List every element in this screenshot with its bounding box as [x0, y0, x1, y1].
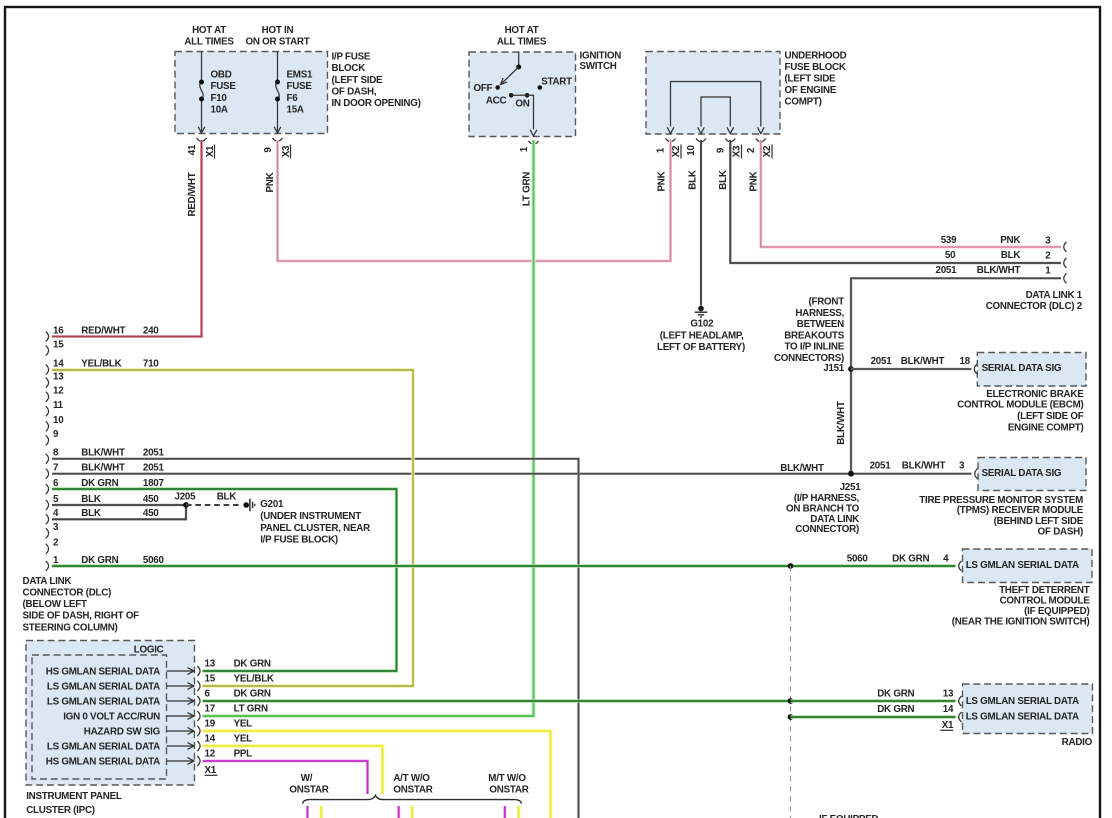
- label BLK (vertical, pin 9): [718, 170, 729, 190]
- wire PPL (IPC pin 12): [203, 761, 368, 794]
- svg-text:M/T W/O: M/T W/O: [488, 773, 526, 784]
- dashed harness line: [790, 566, 792, 818]
- svg-text:IGNITION: IGNITION: [580, 51, 622, 62]
- svg-text:9: 9: [715, 147, 726, 153]
- svg-text:15A: 15A: [287, 104, 304, 115]
- wire BLK (dashed, J205 to G201): [186, 504, 242, 506]
- svg-text:OFF: OFF: [473, 83, 492, 94]
- connector cup underhood x=730.3: [725, 139, 735, 142]
- connector radio pin 13: [959, 696, 962, 706]
- wire DK GRN (IPC pin 6 to junction): [203, 699, 791, 702]
- pin 10 label: [686, 145, 697, 156]
- junction at separator (5060): [788, 563, 794, 569]
- svg-text:(UNDER INSTRUMENT: (UNDER INSTRUMENT: [260, 511, 361, 522]
- svg-text:ON: ON: [515, 99, 529, 110]
- svg-text:BLK/WHT: BLK/WHT: [836, 401, 847, 445]
- svg-text:J205: J205: [175, 491, 197, 502]
- svg-text:10: 10: [53, 415, 64, 426]
- label ON: [515, 99, 529, 110]
- wire DK GRN 5060 (DLC pin 1 to theft deterrent): [52, 564, 956, 567]
- svg-text:X1: X1: [205, 765, 217, 776]
- junction LS GMLAN (radio 14): [788, 714, 794, 720]
- label RED/WHT 240 (pin 16): [81, 325, 159, 336]
- label BLK/WHT 2051 (pin 8): [81, 448, 164, 459]
- svg-text:HOT AT: HOT AT: [505, 25, 539, 36]
- svg-text:ONSTAR: ONSTAR: [489, 784, 528, 795]
- svg-text:6: 6: [205, 689, 211, 700]
- svg-text:RADIO: RADIO: [1062, 737, 1093, 748]
- svg-text:IGN 0 VOLT ACC/RUN: IGN 0 VOLT ACC/RUN: [63, 712, 160, 723]
- label W/ ONSTAR: [289, 773, 328, 796]
- label LOGIC: [134, 644, 164, 655]
- label PNK (vertical, fuse F6): [265, 172, 276, 192]
- ignition switch contacts and wiper: [495, 52, 542, 136]
- connector cup fuse F6 output: [273, 138, 283, 141]
- svg-text:41: 41: [187, 144, 198, 155]
- svg-text:HOT AT: HOT AT: [192, 25, 226, 36]
- label 5060 DK GRN 4: [847, 553, 949, 564]
- svg-text:IF EQUIPPED: IF EQUIPPED: [819, 814, 878, 818]
- svg-text:(BELOW LEFT: (BELOW LEFT: [23, 599, 87, 610]
- svg-text:INSTRUMENT PANEL: INSTRUMENT PANEL: [26, 791, 122, 802]
- svg-text:9: 9: [263, 147, 274, 153]
- svg-text:1: 1: [53, 555, 59, 566]
- brace (ONSTAR variants): [303, 795, 522, 803]
- wire PPL stub (A/T W/O ONSTAR): [397, 806, 400, 818]
- junction J205: [183, 502, 189, 508]
- svg-text:G201: G201: [260, 499, 284, 510]
- svg-text:J251: J251: [840, 482, 862, 493]
- wire BLK/WHT 2051 (DLC pin 8): [52, 459, 579, 818]
- label G102 location: [657, 318, 745, 353]
- svg-text:START: START: [541, 77, 572, 88]
- svg-text:BLK/WHT: BLK/WHT: [81, 448, 125, 459]
- svg-text:TO I/P INLINE: TO I/P INLINE: [784, 342, 844, 353]
- svg-text:LS GMLAN SERIAL DATA: LS GMLAN SERIAL DATA: [966, 696, 1079, 707]
- svg-text:2051: 2051: [143, 463, 165, 474]
- IPC pin 15 (LS GMLAN SERIAL DATA): [47, 674, 274, 693]
- svg-text:PNK: PNK: [657, 171, 668, 191]
- label YEL/BLK 710 (pin 14): [81, 359, 159, 370]
- fuse F10 (OBD, 10A): [198, 52, 205, 134]
- junction LS GMLAN (radio 13): [788, 698, 794, 704]
- svg-text:PANEL CLUSTER, NEAR: PANEL CLUSTER, NEAR: [260, 523, 370, 534]
- svg-text:710: 710: [143, 359, 159, 370]
- svg-text:19: 19: [205, 719, 216, 730]
- svg-text:DK GRN: DK GRN: [892, 553, 929, 564]
- label HOT AT ALL TIMES (ignition): [497, 25, 547, 48]
- label I/P FUSE BLOCK location: [332, 52, 421, 110]
- wire BLK 450 (DLC pin 5 to J205): [52, 504, 186, 506]
- connector EBCM pin 18: [974, 364, 977, 374]
- label SERIAL DATA SIG (EBCM): [982, 363, 1062, 374]
- connector cup ignition output: [529, 141, 539, 144]
- wire YEL stub (A/T W/O ONSTAR): [410, 806, 414, 818]
- label HOT AT ALL TIMES (left): [184, 25, 234, 48]
- junction J151: [848, 366, 854, 372]
- svg-text:LEFT OF BATTERY): LEFT OF BATTERY): [657, 342, 745, 353]
- svg-text:BLK/WHT: BLK/WHT: [780, 463, 824, 474]
- label G201 location: [260, 499, 370, 545]
- svg-text:LT GRN: LT GRN: [522, 172, 533, 206]
- svg-text:(NEAR THE IGNITION SWITCH): (NEAR THE IGNITION SWITCH): [952, 616, 1090, 627]
- svg-text:ON OR START: ON OR START: [245, 37, 309, 48]
- terminal X1 label (IPC): [205, 765, 218, 776]
- svg-text:J151: J151: [823, 363, 845, 374]
- I/P fuse block box: [175, 52, 328, 134]
- svg-text:COMPT): COMPT): [785, 96, 822, 107]
- svg-text:1: 1: [1045, 265, 1051, 276]
- svg-text:14: 14: [943, 704, 954, 715]
- svg-text:3: 3: [959, 461, 965, 472]
- svg-text:CONNECTOR (DLC): CONNECTOR (DLC): [23, 588, 112, 599]
- svg-text:X2: X2: [671, 145, 682, 157]
- wire LT GRN (ignition to IPC pin 17): [203, 140, 534, 716]
- connector DLC2 pin 1: [1064, 273, 1067, 283]
- svg-text:(LEFT SIDE: (LEFT SIDE: [332, 75, 384, 86]
- connector DLC2 pin 3: [1064, 242, 1067, 252]
- svg-text:BLK: BLK: [81, 508, 101, 519]
- svg-text:BLK: BLK: [688, 170, 699, 190]
- svg-text:6: 6: [53, 478, 59, 489]
- wire BLK/WHT 2051 (DLC2 pin 1 / J151 branch): [851, 278, 1061, 473]
- label LS GMLAN SERIAL DATA (radio 13): [966, 696, 1079, 707]
- svg-text:(I/P HARNESS,: (I/P HARNESS,: [794, 493, 860, 504]
- terminal X2 label (pin 2): [762, 145, 773, 159]
- svg-text:LOGIC: LOGIC: [134, 644, 164, 655]
- svg-text:5060: 5060: [143, 555, 165, 566]
- svg-text:HS GMLAN SERIAL DATA: HS GMLAN SERIAL DATA: [46, 667, 160, 678]
- pin 9 label (underhood): [715, 147, 726, 153]
- label (FRONT HARNESS...) J151: [774, 297, 845, 375]
- svg-text:BLK/WHT: BLK/WHT: [902, 461, 946, 472]
- svg-text:DATA LINK: DATA LINK: [23, 576, 72, 587]
- label DK GRN 5060 (pin 1): [81, 555, 164, 566]
- svg-text:BETWEEN: BETWEEN: [797, 319, 844, 330]
- svg-text:HAZARD SW SIG: HAZARD SW SIG: [84, 727, 161, 738]
- svg-text:DK GRN: DK GRN: [234, 659, 271, 670]
- svg-text:BLK/WHT: BLK/WHT: [901, 356, 945, 367]
- svg-text:10: 10: [686, 145, 697, 156]
- svg-text:YEL: YEL: [234, 719, 253, 730]
- svg-text:SWITCH: SWITCH: [580, 61, 617, 72]
- svg-text:2: 2: [53, 538, 59, 549]
- wire DK GRN (junction to radio pin 14): [791, 715, 956, 718]
- svg-text:2051: 2051: [143, 448, 165, 459]
- wire PNK (fuse F6 to underhood pin 1): [278, 140, 671, 261]
- svg-text:(LEFT SIDE OF: (LEFT SIDE OF: [1017, 411, 1084, 422]
- label 539 PNK 3: [941, 235, 1052, 247]
- label RED/WHT (vertical): [187, 172, 198, 216]
- wire YEL/BLK 710 (DLC pin 14 to IPC pin 15): [52, 370, 413, 686]
- terminal X2 label (pin 1): [671, 145, 682, 159]
- connector theft deterrent pin 4: [959, 561, 962, 571]
- underhood fuse block box: [646, 52, 780, 135]
- svg-text:OBD: OBD: [211, 70, 232, 81]
- pin 1 label (underhood): [655, 147, 666, 153]
- svg-text:X1: X1: [942, 720, 954, 731]
- label BLK/WHT (on pin 7 wire): [780, 463, 824, 474]
- svg-text:STEERING COLUMN): STEERING COLUMN): [23, 622, 118, 633]
- IPC pin 14 (LS GMLAN SERIAL DATA): [47, 734, 252, 753]
- svg-text:14: 14: [205, 734, 216, 745]
- wire PNK 539 (underhood pin 2 to DLC2 pin 3): [761, 140, 1061, 247]
- label LS GMLAN SERIAL DATA (theft): [966, 560, 1079, 571]
- svg-text:ALL TIMES: ALL TIMES: [497, 37, 547, 48]
- label PNK (vertical, underhood pin 1): [657, 171, 668, 191]
- label IF EQUIPPED (cut off at bottom): [819, 814, 878, 818]
- label DK GRN 1807 (pin 6): [81, 478, 164, 489]
- IPC pin 6 (LS GMLAN SERIAL DATA): [47, 689, 271, 708]
- svg-text:FUSE BLOCK: FUSE BLOCK: [785, 62, 846, 73]
- ground G201: [243, 499, 254, 512]
- svg-text:13: 13: [205, 659, 216, 670]
- svg-text:1: 1: [519, 146, 530, 152]
- wire YEL (IPC pin 14): [203, 746, 383, 794]
- wire BLK 450 (DLC pin 4 to J205): [52, 505, 186, 519]
- wire PPL stub (W/ ONSTAR): [306, 806, 309, 818]
- svg-text:W/: W/: [301, 773, 313, 784]
- pin 2 label (underhood): [746, 147, 757, 153]
- IPC pin 19 (HAZARD SW SIG): [84, 719, 252, 738]
- label SERIAL DATA SIG (TPMS): [982, 468, 1062, 479]
- wire BLK 50 (underhood pin 9 to DLC2 pin 2): [730, 140, 1061, 263]
- wire BLK/WHT 2051 (DLC pin 7 to TPMS pin 3): [52, 472, 972, 475]
- svg-text:YEL/BLK: YEL/BLK: [81, 359, 121, 370]
- wire PPL stub (M/T W/O ONSTAR): [503, 806, 506, 818]
- label J251: [840, 482, 862, 493]
- label IGNITION SWITCH: [580, 51, 622, 73]
- EBCM box: [977, 353, 1086, 387]
- svg-text:ENGINE COMPT): ENGINE COMPT): [1008, 423, 1084, 434]
- connector cup fuse F10 output: [197, 138, 207, 141]
- svg-text:10A: 10A: [211, 104, 228, 115]
- svg-text:FUSE: FUSE: [211, 81, 237, 92]
- svg-text:X2: X2: [762, 145, 773, 157]
- label START: [541, 77, 572, 88]
- svg-text:I/P FUSE BLOCK): I/P FUSE BLOCK): [260, 535, 338, 546]
- svg-text:HS GMLAN SERIAL DATA: HS GMLAN SERIAL DATA: [46, 757, 160, 768]
- svg-text:BLOCK: BLOCK: [332, 63, 366, 74]
- IPC outer box: [26, 641, 195, 786]
- label ELECTRONIC BRAKE CONTROL MODULE: [957, 389, 1084, 434]
- label THEFT DETERRENT CONTROL MODULE: [952, 585, 1090, 627]
- svg-text:F10: F10: [211, 93, 228, 104]
- svg-text:(IF EQUIPPED): (IF EQUIPPED): [1024, 606, 1089, 617]
- svg-text:YEL: YEL: [234, 734, 253, 745]
- label BLK (dashed wire): [217, 491, 237, 502]
- svg-text:ELECTRONIC BRAKE: ELECTRONIC BRAKE: [986, 389, 1084, 400]
- svg-text:PNK: PNK: [1000, 235, 1020, 246]
- label TIRE PRESSURE MONITOR SYSTEM: [919, 495, 1083, 538]
- junction J251: [848, 471, 854, 477]
- svg-text:240: 240: [143, 325, 159, 336]
- svg-text:CONTROL MODULE (EBCM): CONTROL MODULE (EBCM): [957, 400, 1083, 411]
- connector cup underhood x=760.8: [756, 139, 766, 142]
- IPC pin 12 (HS GMLAN SERIAL DATA): [46, 749, 252, 768]
- svg-text:12: 12: [205, 749, 216, 760]
- svg-text:7: 7: [53, 463, 59, 474]
- label LT GRN (vertical): [522, 172, 533, 206]
- svg-text:3: 3: [1045, 235, 1051, 246]
- label M/T W/O ONSTAR: [488, 773, 528, 796]
- svg-text:HOT IN: HOT IN: [262, 25, 294, 36]
- fuse F6 (EMS1, 15A): [274, 52, 281, 134]
- wire DK GRN (junction to radio pin 13): [791, 699, 956, 702]
- TPMS box: [978, 458, 1086, 491]
- wire YEL stub (M/T W/O ONSTAR): [517, 806, 521, 818]
- label OBD FUSE F10 10A: [211, 70, 237, 116]
- svg-text:DK GRN: DK GRN: [877, 704, 914, 715]
- svg-text:LT GRN: LT GRN: [234, 704, 268, 715]
- svg-text:LS GMLAN SERIAL DATA: LS GMLAN SERIAL DATA: [47, 682, 160, 693]
- svg-text:OF DASH,: OF DASH,: [332, 87, 377, 98]
- svg-text:CONNECTOR (DLC) 2: CONNECTOR (DLC) 2: [986, 301, 1083, 312]
- svg-text:(FRONT: (FRONT: [808, 297, 844, 308]
- label DK GRN 13 (radio): [877, 688, 954, 699]
- connector radio pin 14: [959, 712, 962, 722]
- label BLK (vertical, pin 10): [688, 170, 699, 190]
- svg-text:CONNECTOR): CONNECTOR): [795, 524, 859, 535]
- svg-text:(LEFT HEADLAMP,: (LEFT HEADLAMP,: [660, 331, 744, 342]
- svg-text:450: 450: [143, 508, 159, 519]
- label LS GMLAN SERIAL DATA (radio 14): [966, 712, 1079, 723]
- connector cup underhood x=670.5: [666, 139, 676, 142]
- label UNDERHOOD FUSE BLOCK location: [785, 50, 847, 107]
- radio box: [963, 684, 1093, 734]
- svg-text:11: 11: [53, 400, 64, 411]
- svg-text:DK GRN: DK GRN: [234, 689, 271, 700]
- svg-text:9: 9: [53, 429, 59, 440]
- svg-text:(BEHIND LEFT SIDE: (BEHIND LEFT SIDE: [994, 516, 1084, 527]
- svg-text:PNK: PNK: [748, 171, 759, 191]
- svg-text:ONSTAR: ONSTAR: [289, 784, 328, 795]
- ignition switch box: [469, 52, 576, 137]
- svg-text:12: 12: [53, 386, 64, 397]
- svg-text:SIDE OF DASH, RIGHT OF: SIDE OF DASH, RIGHT OF: [23, 611, 140, 622]
- svg-text:CLUSTER (IPC): CLUSTER (IPC): [26, 805, 95, 816]
- svg-text:DK GRN: DK GRN: [81, 555, 118, 566]
- svg-text:15: 15: [205, 674, 216, 685]
- terminal X3 label (pin 9): [731, 145, 742, 159]
- svg-text:X3: X3: [731, 145, 742, 157]
- pin 1 label (ignition): [519, 146, 530, 152]
- label PNK (vertical, pin 2): [748, 171, 759, 191]
- label (I/P HARNESS...): [786, 493, 860, 535]
- bus bar pins 1-2: [667, 82, 764, 134]
- svg-text:F6: F6: [287, 93, 299, 104]
- svg-text:5060: 5060: [847, 553, 869, 564]
- svg-text:2051: 2051: [871, 356, 893, 367]
- label BLK 450 (pin 4): [81, 508, 159, 519]
- svg-text:I/P FUSE: I/P FUSE: [332, 52, 371, 63]
- DLC connector pins 1-16: [46, 325, 64, 571]
- svg-text:BLK: BLK: [1001, 250, 1021, 261]
- label ACC: [486, 95, 507, 106]
- svg-text:(LEFT SIDE: (LEFT SIDE: [785, 73, 837, 84]
- svg-text:SERIAL DATA SIG: SERIAL DATA SIG: [982, 468, 1062, 479]
- svg-text:RED/WHT: RED/WHT: [81, 325, 125, 336]
- svg-text:14: 14: [53, 359, 64, 370]
- svg-text:ALL TIMES: ALL TIMES: [184, 37, 234, 48]
- svg-text:8: 8: [53, 448, 59, 459]
- svg-text:RED/WHT: RED/WHT: [187, 172, 198, 216]
- svg-text:THEFT DETERRENT: THEFT DETERRENT: [999, 585, 1090, 596]
- svg-text:PPL: PPL: [234, 749, 253, 760]
- label BLK/WHT 2051 (pin 7): [81, 463, 164, 474]
- wire RED/WHT 240 (fuse F10 to DLC pin 16): [52, 140, 202, 337]
- svg-text:LS GMLAN SERIAL DATA: LS GMLAN SERIAL DATA: [47, 742, 160, 753]
- svg-text:A/T W/O: A/T W/O: [393, 773, 430, 784]
- svg-text:BREAKOUTS: BREAKOUTS: [784, 330, 845, 341]
- label DATA LINK 1 CONNECTOR (DLC) 2: [986, 290, 1083, 312]
- ground G102: [695, 306, 708, 317]
- label DATA LINK CONNECTOR (DLC) location: [23, 576, 140, 633]
- svg-text:PNK: PNK: [265, 172, 276, 192]
- svg-text:UNDERHOOD: UNDERHOOD: [785, 50, 847, 61]
- svg-text:50: 50: [945, 250, 956, 261]
- svg-text:OF DASH): OF DASH): [1038, 527, 1083, 538]
- svg-text:BLK: BLK: [217, 491, 237, 502]
- label DK GRN 14 (radio): [877, 704, 954, 715]
- svg-text:IN DOOR OPENING): IN DOOR OPENING): [332, 98, 421, 109]
- svg-text:LS GMLAN SERIAL DATA: LS GMLAN SERIAL DATA: [966, 712, 1079, 723]
- label A/T W/O ONSTAR: [393, 773, 432, 796]
- svg-text:BLK: BLK: [718, 170, 729, 190]
- label OFF: [473, 83, 492, 94]
- svg-text:2: 2: [1045, 251, 1051, 262]
- svg-text:(TPMS) RECEIVER MODULE: (TPMS) RECEIVER MODULE: [957, 505, 1084, 516]
- label BLK 450 (pin 5): [81, 494, 159, 505]
- wire YEL (IPC pin 19): [203, 731, 551, 818]
- svg-text:13: 13: [943, 688, 954, 699]
- terminal X1 label (radio): [940, 720, 954, 731]
- svg-text:BLK: BLK: [81, 494, 101, 505]
- svg-text:15: 15: [53, 340, 64, 351]
- svg-text:SERIAL DATA SIG: SERIAL DATA SIG: [982, 363, 1062, 374]
- IPC pin 13 (HS GMLAN SERIAL DATA): [46, 659, 271, 678]
- svg-text:LS GMLAN SERIAL DATA: LS GMLAN SERIAL DATA: [47, 697, 160, 708]
- label 2051 BLK/WHT 18: [871, 356, 971, 367]
- IPC inner box (logic): [32, 655, 167, 779]
- svg-text:1807: 1807: [143, 478, 165, 489]
- label J205: [175, 491, 197, 502]
- svg-text:2051: 2051: [870, 461, 892, 472]
- svg-text:539: 539: [941, 235, 957, 246]
- svg-text:DATA LINK 1: DATA LINK 1: [1026, 290, 1083, 301]
- label 50 BLK 2: [945, 250, 1051, 262]
- svg-text:G102: G102: [690, 318, 714, 329]
- svg-text:16: 16: [53, 325, 64, 336]
- label 2051 BLK/WHT 1: [936, 265, 1052, 277]
- svg-text:BLK/WHT: BLK/WHT: [81, 463, 125, 474]
- svg-text:13: 13: [53, 372, 64, 383]
- wire BLK/WHT 2051 (J151 to EBCM pin 18): [851, 368, 972, 371]
- svg-text:DK GRN: DK GRN: [81, 478, 118, 489]
- svg-text:2051: 2051: [936, 265, 958, 276]
- terminal X1 label: [205, 145, 216, 159]
- svg-text:ACC: ACC: [486, 95, 507, 106]
- label HOT IN ON OR START: [245, 25, 309, 48]
- svg-text:CONTROL MODULE: CONTROL MODULE: [1000, 596, 1091, 607]
- wire YEL stub (W/ ONSTAR): [319, 806, 323, 818]
- svg-text:OF ENGINE: OF ENGINE: [785, 85, 837, 96]
- terminal X3 label: [281, 145, 292, 159]
- svg-text:HARNESS,: HARNESS,: [795, 308, 844, 319]
- label BLK/WHT (vertical, J151-J251): [836, 401, 847, 445]
- svg-text:450: 450: [143, 494, 159, 505]
- svg-text:DK GRN: DK GRN: [877, 688, 914, 699]
